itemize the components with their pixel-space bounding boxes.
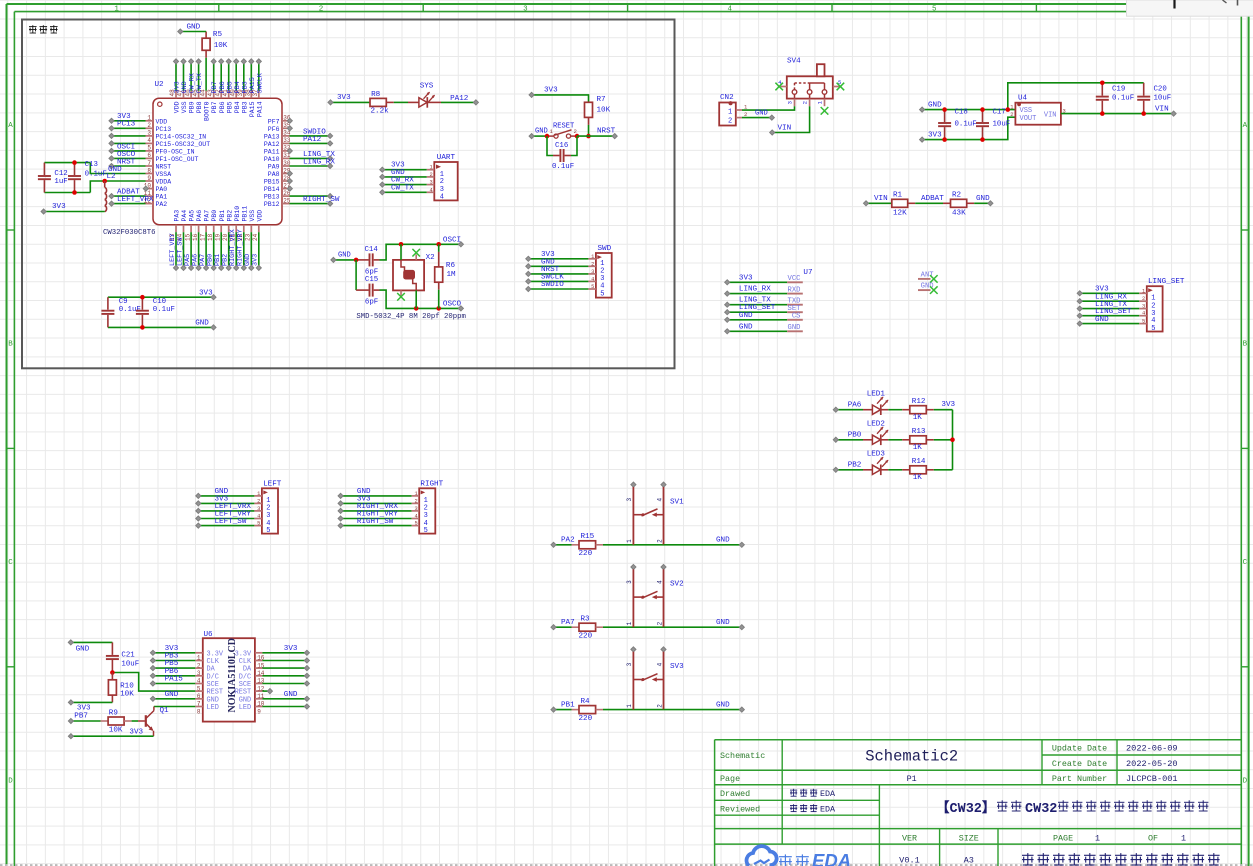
- svg-text:1uF: 1uF: [54, 178, 67, 186]
- svg-text:2: 2: [802, 101, 809, 104]
- wire U2 bottom pin 19 net PB1: [214, 232, 224, 270]
- resistor R1 12K: [892, 192, 908, 218]
- svg-text:1: 1: [1151, 295, 1155, 303]
- svg-text:X2: X2: [426, 254, 436, 262]
- wire 3V3 to U7 VCC: [725, 274, 788, 285]
- wire NRST: [577, 128, 617, 139]
- svg-text:PA12: PA12: [264, 141, 280, 148]
- svg-text:2: 2: [319, 5, 324, 13]
- svg-text:Schematic: Schematic: [720, 751, 765, 761]
- svg-text:GND: GND: [165, 691, 179, 699]
- svg-text:220: 220: [579, 550, 593, 558]
- svg-text:19: 19: [214, 233, 221, 241]
- capacitor C21 10uF: [106, 642, 139, 672]
- wire U2 bottom pin 22 net RIGHT_VRY: [237, 229, 247, 270]
- svg-text:VOUT: VOUT: [1020, 115, 1037, 123]
- svg-text:1: 1: [430, 165, 433, 171]
- svg-text:R8: R8: [371, 91, 381, 99]
- wire R13 to 3V3 rail: [926, 439, 952, 441]
- svg-text:P1: P1: [907, 774, 917, 784]
- wire GND to LEFT pin 1: [196, 488, 255, 498]
- svg-text:3: 3: [626, 580, 633, 584]
- svg-text:2: 2: [591, 261, 594, 267]
- svg-text:1: 1: [626, 621, 633, 625]
- wire CW_TX to UART pin4: [380, 184, 427, 195]
- wire to U2 pin 2 net PC13: [109, 121, 146, 131]
- svg-text:PA1: PA1: [156, 194, 168, 201]
- svg-text:SIZE: SIZE: [959, 834, 979, 844]
- wire LING_TX to LING_SET pin 3: [1077, 301, 1139, 311]
- svg-text:PB10: PB10: [234, 206, 241, 222]
- wire U2 right pin 26: [290, 194, 333, 199]
- svg-text:OSCI: OSCI: [443, 236, 461, 244]
- connector LING_SET: [1139, 278, 1185, 333]
- svg-text:10uF: 10uF: [1154, 95, 1172, 103]
- crystal X2 8M: [393, 244, 435, 308]
- wire ADBAT: [908, 195, 951, 203]
- wire U2 bottom pin 14 net LEFT_SW: [176, 232, 186, 270]
- svg-text:PC13: PC13: [156, 126, 172, 133]
- svg-text:GND: GND: [755, 110, 768, 118]
- svg-text:VSS: VSS: [1020, 107, 1033, 115]
- svg-text:4: 4: [1151, 317, 1155, 325]
- svg-text:3V3: 3V3: [199, 289, 213, 297]
- svg-text:EDA: EDA: [820, 805, 836, 815]
- svg-text:3V3: 3V3: [544, 86, 558, 94]
- wire 3V3 to RIGHT pin 2: [338, 496, 412, 506]
- svg-text:2: 2: [656, 539, 663, 543]
- svg-text:U7: U7: [803, 269, 812, 277]
- svg-text:PA8: PA8: [268, 171, 280, 178]
- capacitor C9 0.1uF: [101, 297, 213, 327]
- svg-text:3: 3: [523, 5, 528, 13]
- transistor Q1: [146, 707, 169, 737]
- svg-text:R5: R5: [213, 31, 223, 39]
- svg-text:3: 3: [414, 506, 417, 512]
- svg-text:PA0: PA0: [156, 186, 168, 193]
- svg-text:R15: R15: [581, 533, 595, 541]
- svg-text:GND: GND: [739, 312, 753, 320]
- svg-text:U4: U4: [1018, 94, 1028, 102]
- svg-text:PB3: PB3: [241, 101, 248, 113]
- wire 3V3 to SWD pin 1: [526, 251, 589, 261]
- wire 3V3 to R8: [328, 94, 370, 105]
- svg-text:R3: R3: [581, 615, 591, 623]
- wire PB5 to U6 pin 3: [150, 660, 195, 671]
- wire 3V3 to LEFT pin 2: [196, 496, 255, 506]
- wire to U2 pin 12 net LEFT_VRX: [109, 196, 154, 206]
- wire U2 bottom pin 21 net RIGHT_VRX: [229, 229, 239, 270]
- svg-text:GND: GND: [976, 195, 990, 203]
- svg-text:3V3: 3V3: [129, 728, 143, 736]
- wire U2 right pin 34 net SWDIO: [290, 128, 333, 138]
- svg-text:1: 1: [1181, 834, 1186, 844]
- svg-text:C19: C19: [1112, 86, 1125, 94]
- svg-text:3: 3: [257, 506, 260, 512]
- svg-text:C10: C10: [153, 298, 166, 306]
- resistor R9 10K: [101, 710, 132, 735]
- svg-text:18: 18: [207, 233, 214, 241]
- resistor R4 220: [572, 698, 604, 723]
- wire to U2 pin 5 net OSCI: [109, 143, 146, 153]
- wire GND to R5: [178, 23, 206, 34]
- wire U2 bottom pin 20 net PB2: [222, 232, 232, 270]
- wire VIN top rail: [1008, 83, 1144, 110]
- svg-text:VDDA: VDDA: [156, 179, 172, 186]
- svg-text:17: 17: [199, 233, 206, 241]
- wire 3V3 to UART pin1: [380, 161, 427, 172]
- svg-text:2: 2: [430, 172, 433, 178]
- led LED1: [863, 390, 888, 415]
- wire U2 top pin 43 net PB7: [211, 59, 219, 94]
- svg-text:PB14: PB14: [264, 186, 280, 193]
- wire GND rail to U4 pin1: [920, 101, 1016, 112]
- svg-text:C: C: [8, 559, 13, 567]
- svg-text:4: 4: [440, 194, 444, 202]
- svg-text:NOKIA5110LCD: NOKIA5110LCD: [227, 638, 238, 712]
- wire U6 right pin 9: [262, 704, 309, 709]
- svg-text:1: 1: [114, 5, 119, 13]
- svg-text:VDD: VDD: [156, 118, 168, 125]
- svg-text:PA6: PA6: [196, 210, 203, 222]
- wire U2 top pin 48 net 3V3: [173, 59, 181, 94]
- wire RIGHT_VRY to RIGHT pin 4: [338, 511, 412, 521]
- svg-text:D: D: [8, 777, 13, 785]
- wire R4 to SV3: [603, 709, 664, 711]
- svg-text:1: 1: [414, 491, 417, 497]
- junction U4 pin1: [1006, 107, 1011, 112]
- svg-text:LING_RX: LING_RX: [739, 286, 771, 294]
- svg-text:R9: R9: [109, 710, 119, 718]
- svg-text:3V3: 3V3: [1095, 286, 1109, 294]
- connector RIGHT: [412, 480, 444, 535]
- wire U2 top pin 37 net SWCLK: [256, 59, 264, 94]
- svg-text:LED2: LED2: [867, 420, 886, 428]
- svg-text:3V3: 3V3: [739, 274, 753, 282]
- svg-text:4: 4: [591, 276, 594, 282]
- svg-text:GND: GND: [1095, 316, 1109, 324]
- svg-text:CN2: CN2: [720, 94, 734, 102]
- svg-text:1: 1: [728, 109, 732, 117]
- slide switch SV4: [778, 57, 841, 106]
- wire LING_SET to LING_SET pin 4: [1077, 308, 1139, 318]
- wire 3V3 to Q1 emitter: [68, 728, 153, 738]
- svg-text:VSSA: VSSA: [156, 171, 172, 178]
- wire LING_SET to U7 SET: [725, 304, 788, 315]
- resistor R6 1M: [435, 244, 456, 308]
- svg-text:EDA: EDA: [812, 850, 851, 866]
- capacitor C15 6pF: [356, 260, 379, 307]
- svg-text:GND: GND: [76, 646, 90, 654]
- svg-text:ADBAT: ADBAT: [921, 195, 944, 203]
- lcd module U6 NOKIA5110LCD: [195, 631, 265, 722]
- wire GND to U2 VSSA pin 8: [90, 163, 145, 174]
- svg-text:VSS: VSS: [181, 101, 188, 113]
- svg-text:24: 24: [252, 233, 259, 241]
- svg-text:10K: 10K: [214, 42, 228, 50]
- wire PB2 to LED3: [833, 462, 863, 473]
- wire U2 right pin 30 net LING_RX: [290, 158, 336, 168]
- svg-text:PB1: PB1: [219, 210, 226, 222]
- wire to U2 pin 1 net 3V3: [109, 113, 146, 123]
- svg-text:0.1uF: 0.1uF: [85, 171, 107, 179]
- module U7 ANT pin no-connect: [918, 272, 938, 283]
- svg-text:R14: R14: [912, 458, 926, 466]
- svg-text:C18: C18: [955, 109, 968, 117]
- wire U2 top pin 47 net GND: [181, 59, 189, 94]
- svg-text:PA11: PA11: [264, 149, 280, 156]
- svg-text:GND: GND: [788, 324, 801, 332]
- svg-text:0.1uF: 0.1uF: [1112, 95, 1134, 103]
- svg-text:Drawed: Drawed: [720, 789, 750, 799]
- svg-text:5: 5: [414, 521, 417, 527]
- svg-text:GND: GND: [928, 101, 942, 109]
- svg-text:VIN: VIN: [1155, 105, 1169, 113]
- svg-text:220: 220: [579, 715, 593, 723]
- svg-text:6pF: 6pF: [365, 299, 378, 307]
- svg-text:PA3: PA3: [174, 210, 181, 222]
- svg-text:4: 4: [728, 5, 733, 13]
- connector CN2: [719, 94, 748, 125]
- svg-text:CW32: CW32: [1025, 802, 1057, 817]
- svg-text:CW32F030C8T6: CW32F030C8T6: [103, 229, 156, 237]
- svg-text:PA12: PA12: [450, 95, 469, 103]
- wire R15 to SV1: [603, 544, 664, 546]
- svg-text:2: 2: [1142, 296, 1145, 302]
- wire U2 right pin 31 net LING_TX: [290, 151, 336, 161]
- svg-text:RESET: RESET: [553, 123, 574, 131]
- svg-text:3V3: 3V3: [941, 401, 955, 409]
- wire VIN from U4 pin3: [1061, 105, 1176, 116]
- svg-text:PA13: PA13: [264, 134, 280, 141]
- svg-text:PB13: PB13: [264, 194, 280, 201]
- wire 3V3 rail for leds: [941, 401, 955, 470]
- svg-text:1K: 1K: [913, 444, 923, 452]
- wire VIN to R1: [863, 195, 891, 206]
- wire U2 bottom pin 16 net PA6: [191, 232, 201, 270]
- svg-text:A3: A3: [964, 856, 974, 866]
- svg-text:1: 1: [591, 254, 594, 260]
- svg-text:R7: R7: [597, 96, 606, 104]
- svg-text:R6: R6: [446, 262, 456, 270]
- capacitor C18 0.1uF: [938, 107, 977, 142]
- svg-text:VIN: VIN: [778, 125, 792, 133]
- svg-text:3: 3: [591, 269, 594, 275]
- wire GND from SV3: [664, 701, 745, 712]
- module U7 GND pin no-connect: [918, 283, 938, 294]
- wire to U2 pin 11 net ADBAT: [109, 189, 146, 199]
- wire GND to C21: [68, 640, 112, 654]
- svg-text:GND: GND: [921, 283, 934, 291]
- connector SWD: [588, 245, 611, 298]
- junction C21 R10 REST: [110, 670, 115, 675]
- svg-text:8: 8: [197, 708, 201, 715]
- svg-text:4: 4: [656, 662, 663, 666]
- svg-text:PB1: PB1: [561, 701, 575, 709]
- module U7 pins: [787, 269, 812, 332]
- svg-text:1: 1: [626, 539, 633, 543]
- svg-text:Schematic2: Schematic2: [865, 748, 958, 766]
- svg-text:OF: OF: [1148, 834, 1158, 844]
- svg-text:PB11: PB11: [241, 206, 248, 222]
- wire RIGHT_SW to RIGHT pin 5: [338, 518, 412, 528]
- svg-text:NRST: NRST: [156, 164, 172, 171]
- svg-text:SMD-5032_4P 8M 20pf 20ppm: SMD-5032_4P 8M 20pf 20ppm: [356, 313, 465, 321]
- svg-text:Part Number: Part Number: [1052, 774, 1107, 784]
- svg-text:1: 1: [257, 491, 260, 497]
- svg-text:PA12: PA12: [303, 136, 322, 144]
- svg-text:4: 4: [430, 187, 433, 193]
- svg-text:L2: L2: [107, 173, 117, 181]
- svg-text:3: 3: [626, 498, 633, 502]
- svg-text:2022-06-09: 2022-06-09: [1126, 744, 1178, 754]
- no-connect X2 unused pins: [397, 249, 420, 301]
- wire U2 top pin 42 net PB6: [219, 59, 227, 94]
- svg-text:GND: GND: [716, 537, 730, 545]
- svg-text:SWDIO: SWDIO: [541, 281, 564, 289]
- svg-text:10K: 10K: [120, 690, 134, 698]
- svg-text:10uF: 10uF: [121, 660, 139, 668]
- wire 3V3 to U6 pin 1: [150, 645, 195, 656]
- svg-text:5: 5: [1151, 325, 1155, 333]
- svg-text:Create Date: Create Date: [1052, 759, 1107, 769]
- svg-text:LEFT: LEFT: [263, 480, 282, 488]
- svg-text:R2: R2: [952, 192, 962, 200]
- svg-text:VDD: VDD: [174, 101, 181, 113]
- wire LEFT_VRX to LEFT pin 3: [196, 503, 255, 513]
- svg-text:1K: 1K: [913, 474, 923, 482]
- wire R12 to 3V3 rail: [926, 409, 952, 411]
- wire U6 right pin 15: [262, 658, 309, 663]
- svg-text:PA2: PA2: [156, 201, 168, 208]
- svg-text:6: 6: [147, 152, 151, 159]
- svg-text:LED: LED: [207, 704, 219, 712]
- svg-text:PA2: PA2: [561, 537, 575, 545]
- no-connect U2 right pin 29: [287, 171, 292, 176]
- svg-text:2: 2: [257, 498, 260, 504]
- resistor R2 43K: [951, 192, 967, 218]
- led SYS: [386, 83, 435, 108]
- regulator U4: [1010, 94, 1066, 124]
- svg-text:A: A: [1243, 122, 1248, 130]
- wire R14 to 3V3 rail: [926, 469, 952, 471]
- svg-text:PF7: PF7: [268, 118, 280, 125]
- svg-text:PA14: PA14: [256, 101, 263, 117]
- svg-text:U6: U6: [204, 631, 214, 639]
- svg-text:R12: R12: [912, 398, 926, 406]
- svg-text:LEFT_SW: LEFT_SW: [215, 518, 247, 526]
- wire 3V3 rail to U4 pin2: [920, 117, 1016, 142]
- wire U2 top pin 40 net PB4: [234, 59, 242, 94]
- no-connect U2 right pin 36: [287, 118, 292, 123]
- capacitor C19 0.1uF: [1096, 81, 1134, 116]
- svg-text:4: 4: [147, 137, 151, 144]
- svg-text:NRST: NRST: [597, 128, 616, 136]
- wire U2 bottom pin 23 net GND: [244, 232, 254, 270]
- svg-text:LING_RX: LING_RX: [303, 158, 335, 166]
- svg-text:1: 1: [1010, 104, 1013, 110]
- svg-text:2: 2: [656, 704, 663, 708]
- svg-text:Reviewed: Reviewed: [720, 805, 760, 815]
- svg-text:PA5: PA5: [189, 210, 196, 222]
- wire SWDIO to SWD pin 5: [526, 281, 589, 291]
- wire R9 to Q1 base: [132, 720, 145, 722]
- resistor R5 10K: [202, 31, 228, 91]
- wire to U2 pin 7 net NRST: [109, 158, 146, 168]
- wire CW_RX to UART pin3: [380, 177, 427, 188]
- wire GND to UART pin2: [380, 169, 427, 180]
- resistor R3 220: [572, 615, 604, 640]
- svg-text:B: B: [8, 341, 13, 349]
- no-connect SV4 pins: [775, 83, 844, 115]
- svg-text:3: 3: [787, 101, 794, 104]
- svg-text:43K: 43K: [952, 210, 966, 218]
- wire U6 right pin 16: [262, 645, 309, 656]
- svg-text:GND: GND: [187, 23, 201, 31]
- wire U6 right pin 14: [262, 666, 309, 671]
- wire LEFT_SW to LEFT pin 5: [196, 518, 255, 528]
- svg-text:Update Date: Update Date: [1052, 744, 1107, 754]
- svg-text:PAGE: PAGE: [1053, 834, 1073, 844]
- svg-text:2: 2: [1010, 112, 1013, 118]
- svg-text:SV1: SV1: [670, 498, 684, 506]
- resistor R10 10K: [108, 673, 134, 703]
- svg-text:3V3: 3V3: [337, 94, 351, 102]
- wire 3V3 to LING_SET pin 1: [1077, 286, 1139, 296]
- svg-text:R4: R4: [581, 698, 591, 706]
- wire LING_RX to U7 RXD: [725, 286, 788, 297]
- svg-text:3: 3: [1142, 304, 1145, 310]
- svg-text:CW_TX: CW_TX: [391, 184, 414, 192]
- wire GND to U7 CS: [725, 312, 788, 323]
- svg-text:GND: GND: [739, 323, 753, 331]
- svg-text:LED: LED: [239, 704, 251, 712]
- svg-text:RIGHT: RIGHT: [420, 480, 443, 488]
- wire PA15 to U6 pin 5: [150, 676, 195, 687]
- wire PB0 to LED2: [833, 432, 863, 443]
- svg-text:VIN: VIN: [1044, 112, 1057, 120]
- svg-text:VSS: VSS: [249, 210, 256, 222]
- svg-text:2: 2: [656, 621, 663, 625]
- wire U2 top pin 38 net PA15: [249, 59, 257, 94]
- push button RESET: [547, 123, 577, 139]
- wire VIN to SV4 pin2: [770, 106, 810, 135]
- wire U2 bottom pin 15 net PA5: [184, 232, 194, 270]
- svg-text:5: 5: [591, 284, 594, 290]
- svg-text:LED1: LED1: [867, 390, 886, 398]
- svg-text:GND: GND: [284, 691, 298, 699]
- svg-text:15: 15: [184, 233, 191, 241]
- resistor R14 1K: [910, 458, 927, 482]
- svg-text:PF6: PF6: [268, 126, 280, 133]
- svg-text:2: 2: [728, 118, 732, 126]
- wire U2 top pin 45 net CW_TX: [196, 59, 204, 94]
- connector UART: [427, 154, 458, 202]
- wire U6 right pin 10: [262, 691, 309, 702]
- svg-text:PB8: PB8: [196, 101, 203, 113]
- svg-text:C20: C20: [1154, 86, 1167, 94]
- svg-text:5: 5: [147, 145, 151, 152]
- resistor R12 1K: [910, 398, 927, 422]
- resistor R13 1K: [910, 428, 927, 452]
- wire U6 right pin 12: [262, 681, 309, 686]
- svg-text:5: 5: [1142, 319, 1145, 325]
- no-connect U2 right pin 32: [287, 148, 292, 153]
- svg-text:C13: C13: [85, 161, 98, 169]
- svg-text:0.1uF: 0.1uF: [955, 121, 977, 129]
- svg-text:12K: 12K: [893, 210, 907, 218]
- led LED2: [863, 420, 888, 445]
